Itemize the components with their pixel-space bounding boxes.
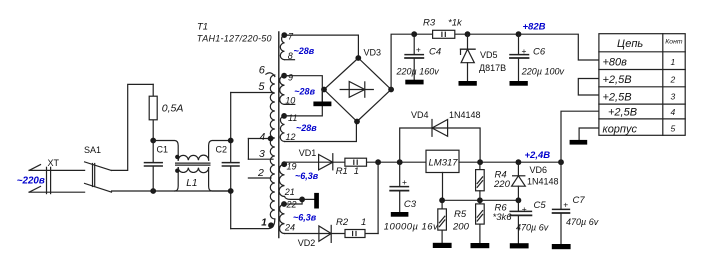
transformer T1 core (278, 32, 280, 238)
fuse 0,5A (149, 84, 183, 140)
T1 pin 1 (231, 218, 275, 229)
svg-text:4: 4 (260, 132, 266, 143)
svg-text:+: + (522, 204, 527, 214)
svg-text:C5: C5 (534, 200, 547, 211)
svg-text:VD2: VD2 (298, 238, 316, 248)
svg-text:VD6: VD6 (530, 165, 548, 175)
svg-text:9: 9 (288, 72, 293, 82)
svg-text:C3: C3 (404, 199, 417, 210)
svg-text:+2,5В: +2,5В (603, 91, 632, 103)
diode VD1 (299, 148, 333, 170)
transformer T1 secondary winding 22-24 (280, 204, 285, 234)
svg-text:5: 5 (671, 123, 676, 133)
svg-text:+2,5В: +2,5В (603, 74, 632, 86)
transformer T1 secondary winding 9-10 (280, 76, 285, 105)
node table row4 +2,5В (608, 107, 676, 119)
svg-text:*3k6: *3k6 (493, 212, 513, 223)
junction R4/R6 (477, 197, 483, 203)
svg-text:VD1: VD1 (299, 148, 317, 158)
transformer T1 secondary winding 19-21 (279, 164, 284, 197)
wire VD2 branch (285, 233, 379, 235)
svg-text:+80в: +80в (603, 57, 628, 69)
svg-text:11: 11 (288, 113, 297, 123)
ground chassis (570, 140, 588, 145)
svg-text:470µ 6v: 470µ 6v (516, 223, 549, 233)
junction VD6 top (516, 159, 522, 165)
capacitor C2 (216, 93, 240, 229)
svg-text:~28в: ~28в (294, 46, 315, 56)
svg-text:VD5: VD5 (480, 50, 498, 60)
svg-text:12: 12 (286, 132, 296, 142)
svg-text:R1: R1 (336, 166, 348, 177)
svg-text:24: 24 (284, 223, 295, 233)
svg-text:SA1: SA1 (84, 145, 101, 155)
wire jumper pin4 to pin3 (247, 139, 249, 160)
ground C5 (510, 243, 529, 248)
inductor L1 (153, 141, 231, 192)
T1 pin 4 (248, 132, 273, 143)
resistor R6 (476, 200, 513, 243)
svg-text:~28в: ~28в (296, 123, 317, 133)
svg-text:C1: C1 (157, 144, 169, 154)
T1 pin 9 (281, 72, 293, 82)
svg-text:220: 220 (493, 179, 511, 190)
transformer T1 secondary winding 7-8 (280, 35, 284, 60)
wire LM317 adj (442, 173, 444, 201)
junction C6 (516, 31, 522, 37)
wire bottom rail (112, 190, 231, 192)
svg-text:VD4: VD4 (411, 110, 429, 120)
wire table row4 to rail (561, 111, 599, 162)
resistor R1 (336, 158, 367, 177)
T1 pin 11 (281, 113, 297, 123)
svg-text:+: + (402, 177, 407, 187)
svg-text:220µ 100v: 220µ 100v (521, 67, 565, 77)
svg-text:ТАН1-127/220-50: ТАН1-127/220-50 (197, 33, 272, 43)
ground R5 (433, 243, 452, 248)
T1 pin 22 (281, 200, 296, 210)
node table row2 +2,5В (603, 74, 676, 86)
transformer T1 secondary winding 11-12 (280, 116, 284, 142)
connector table X1 (599, 34, 685, 136)
svg-text:1: 1 (261, 218, 267, 229)
junction R1 output (375, 159, 381, 165)
junction C3/VD4 (397, 159, 403, 165)
transformer T1 primary winding (270, 75, 275, 219)
ground C4 (405, 80, 423, 85)
capacitor C5 (510, 200, 549, 243)
wire output rail (459, 161, 561, 163)
svg-text:10000µ 16v: 10000µ 16v (384, 221, 439, 232)
wire pin9 to bridge left (285, 76, 323, 90)
junction VD6/C5 (516, 197, 522, 203)
svg-text:3: 3 (671, 91, 676, 101)
svg-text:220µ 160v: 220µ 160v (396, 67, 440, 77)
node table row5 корпус (603, 123, 676, 135)
svg-text:*1k: *1k (448, 17, 463, 28)
svg-text:~220в: ~220в (17, 176, 45, 187)
ground VD5 (459, 81, 477, 86)
T1 pin 12 (286, 132, 296, 142)
svg-text:~6,3в: ~6,3в (295, 171, 319, 181)
svg-text:+: + (416, 45, 421, 55)
svg-text:+2,5В: +2,5В (608, 107, 637, 119)
svg-text:L1: L1 (186, 178, 197, 189)
svg-text:R5: R5 (454, 209, 467, 220)
junction R4 top (477, 159, 483, 165)
svg-text:1N4148: 1N4148 (527, 177, 559, 187)
svg-text:4: 4 (671, 107, 676, 117)
switch SA1 (84, 145, 112, 192)
svg-text:+: + (563, 200, 568, 210)
svg-text:Д817В: Д817В (479, 63, 506, 73)
junction VD5 (465, 31, 471, 37)
wire pin7 to bridge top (285, 35, 359, 58)
svg-text:C6: C6 (533, 46, 546, 57)
svg-text:~28в: ~28в (294, 86, 315, 96)
ground secondary 6.3v winding (314, 193, 319, 209)
svg-text:5: 5 (258, 81, 265, 93)
svg-text:1: 1 (354, 166, 359, 177)
diode VD2 (298, 225, 331, 248)
svg-text:2: 2 (670, 74, 676, 84)
T1 pin 2 (248, 167, 271, 179)
wire pin12 to bridge bottom (285, 122, 357, 142)
ground C6 (510, 81, 528, 86)
svg-text:Т1: Т1 (197, 22, 208, 33)
T1 pin 10 stub (285, 96, 296, 106)
resistor R5 (438, 200, 470, 243)
svg-text:1: 1 (671, 57, 676, 67)
capacitor C1 (145, 141, 169, 192)
wire bridge plus to top rail and table row1 (391, 34, 599, 89)
svg-text:0,5А: 0,5А (162, 103, 184, 115)
svg-text:10: 10 (285, 96, 295, 106)
svg-text:+: + (522, 46, 527, 56)
junction fuse/C1/L1 (150, 138, 156, 144)
svg-text:6: 6 (259, 65, 266, 77)
resistor R3 (423, 17, 463, 38)
junction C7 top (558, 159, 564, 165)
svg-text:R3: R3 (423, 18, 436, 29)
wire pin21/22 to ground (292, 199, 314, 204)
svg-text:21: 21 (284, 187, 295, 197)
svg-text:1: 1 (361, 217, 366, 228)
svg-text:8: 8 (288, 51, 293, 61)
T1 pin 21 (284, 187, 302, 200)
ground C7 (552, 244, 571, 249)
wire table rows 2-3 bracket (578, 79, 599, 96)
capacitor C4 (396, 34, 442, 79)
resistor R4 (476, 162, 511, 200)
svg-text:корпус: корпус (603, 123, 638, 135)
svg-text:470µ 6v: 470µ 6v (566, 217, 599, 227)
svg-text:LM317: LM317 (429, 157, 459, 168)
capacitor C3 (384, 162, 439, 232)
zener diode VD5 (461, 34, 507, 81)
T1 pin 7 (281, 32, 294, 42)
ground bridge negative (313, 90, 331, 107)
diode VD4 (411, 110, 481, 136)
svg-text:Конт: Конт (665, 39, 683, 46)
T1 pin 8 stub (285, 51, 295, 61)
wire switch top output to fuse (112, 84, 154, 170)
svg-text:VD3: VD3 (364, 48, 382, 58)
wire riser to R2 branch (377, 162, 379, 233)
wire pin11 to bridge left (285, 90, 323, 116)
svg-text:~6,3в: ~6,3в (293, 212, 317, 222)
svg-text:+2,4В: +2,4В (525, 150, 551, 161)
bridge rectifier VD3 (321, 48, 394, 125)
wire table row5 to ground (579, 128, 599, 140)
junction C2 top (228, 138, 234, 144)
svg-text:2: 2 (257, 167, 264, 179)
junction 21-22 (299, 197, 305, 203)
junction C4 (411, 31, 417, 37)
T1 pin 24 (284, 223, 295, 233)
capacitor C7 (553, 162, 599, 244)
junction C1 bottom (150, 188, 156, 194)
node table row3 +2,5В (603, 91, 676, 103)
T1 pin 5 (231, 81, 273, 93)
ground C3 (391, 212, 409, 217)
node table row1 +80в (603, 57, 676, 69)
diode VD6 (512, 162, 559, 200)
resistor R2 (336, 217, 366, 237)
wire VD4 loop (400, 128, 480, 162)
regulator U1 LM317 (426, 150, 459, 172)
svg-text:C7: C7 (573, 195, 586, 206)
svg-text:1N4148: 1N4148 (449, 110, 481, 120)
junction C2 bottom (228, 188, 234, 194)
svg-text:XT: XT (48, 158, 60, 168)
svg-text:3: 3 (259, 148, 265, 160)
svg-text:R2: R2 (336, 217, 349, 228)
T1 pin 3 (248, 148, 273, 160)
T1 pin 19 (281, 161, 296, 171)
T1 pin 6 (259, 65, 275, 77)
svg-text:C4: C4 (429, 46, 441, 57)
wire adj rail (442, 199, 519, 201)
ground R6 (471, 243, 490, 248)
capacitor C6 (510, 34, 565, 81)
wire main rail pin19 to LM317 (285, 161, 427, 163)
junction adj/R5 (439, 197, 445, 203)
svg-text:Цепь: Цепь (617, 38, 643, 50)
svg-text:C2: C2 (216, 144, 228, 154)
svg-text:200: 200 (452, 221, 470, 232)
connector XT (29, 158, 85, 194)
svg-text:+82В: +82В (523, 21, 546, 32)
